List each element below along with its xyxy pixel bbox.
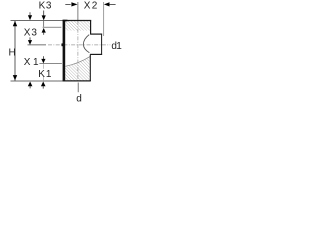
X3 top arrow (down, outside above top face): [28, 15, 32, 20]
H top arrow: [13, 21, 17, 26]
X3 shaft upper: [29, 12, 31, 16]
svg-text:K: K: [38, 69, 45, 80]
svg-text:X: X: [24, 57, 31, 68]
X2 right extension line: [103, 2, 105, 36]
X1 bottom arrow (up, outside below bottom face): [28, 82, 33, 87]
svg-text:K: K: [39, 1, 46, 12]
svg-text:1: 1: [33, 57, 39, 68]
K1 dim segment above text: [42, 64, 44, 69]
X2 left shaft: [65, 3, 70, 5]
main pipe right wall lower: [89, 54, 91, 81]
main centerline upper (X2 extension): [77, 2, 79, 21]
branch centerline solid left part: [28, 44, 47, 46]
main centerline through fitting: [77, 21, 79, 81]
svg-text:X: X: [84, 1, 91, 12]
fitting top edge: [63, 20, 92, 22]
K1 top arrow (down, outside above socket line): [41, 59, 45, 64]
branch centerline dash-dot: [48, 44, 110, 46]
svg-text:H: H: [9, 48, 16, 59]
K1 dim segment below text: [42, 77, 44, 81]
top-left rim patch: [63, 20, 68, 22]
X3 bottom arrow (down onto branch axis): [28, 40, 32, 45]
top edge extension line: [11, 20, 63, 22]
main pipe left wall (thick): [63, 20, 66, 81]
X3 shaft mid: [29, 37, 31, 40]
K3 socket depth line: [43, 26, 62, 28]
svg-text:2: 2: [92, 1, 98, 12]
branch mouth face: [101, 34, 103, 55]
main centerline lower (d leader): [77, 83, 79, 93]
hatch bottom socket region: [65, 56, 90, 80]
svg-text:3: 3: [31, 27, 37, 38]
K3 top arrow (down, outside above top face): [42, 15, 46, 20]
K1 bottom arrow (up, outside below bottom face): [41, 82, 46, 87]
hatch top socket band: [65, 21, 90, 31]
K1 shaft upper: [42, 56, 44, 59]
crotch intersection arc: [83, 35, 89, 53]
H bottom arrow: [13, 75, 17, 80]
dimension H line: [14, 21, 16, 81]
K3 dim line segment between faces: [43, 21, 45, 27]
svg-text:3: 3: [46, 1, 52, 12]
X2 right shaft: [109, 3, 115, 5]
X2 left arrow (right-pointing at main axis): [71, 2, 77, 6]
K1 socket depth line: [39, 63, 62, 65]
bottom edge extension line: [11, 80, 63, 82]
main pipe right wall upper: [90, 21, 92, 35]
K3 shaft upper: [43, 11, 45, 16]
left wall nub at branch axis: [62, 43, 64, 46]
K1 shaft lower: [42, 86, 44, 89]
bottom socket seat curve: [65, 56, 90, 66]
svg-text:1: 1: [116, 41, 122, 52]
branch top edge: [90, 33, 102, 35]
branch bottom edge: [90, 53, 102, 55]
X2 right arrow (left-pointing at mouth extension): [104, 2, 110, 6]
X1 shaft lower: [29, 86, 31, 89]
fitting bottom edge: [63, 80, 91, 82]
K3 bottom arrow (up, outside below depth line): [42, 28, 46, 33]
svg-text:X: X: [24, 27, 31, 38]
svg-text:d: d: [76, 94, 82, 102]
K3 shaft lower: [43, 32, 45, 35]
svg-text:1: 1: [46, 69, 52, 80]
